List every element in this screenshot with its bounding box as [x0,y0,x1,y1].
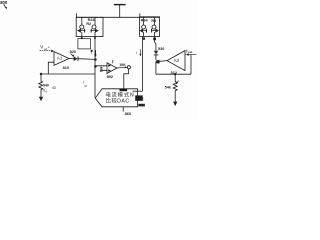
svg-text:851: 851 [99,67,103,73]
right mirror transistor QC [139,17,147,36]
svg-text:530: 530 [158,47,164,51]
resistor Rsk [165,74,177,102]
stub pad left box a [81,37,83,39]
junction dot Rsf node [40,73,42,75]
left current-mirror box [76,17,103,36]
svg-text:I: I [91,52,92,56]
svg-text:540: 540 [43,84,49,88]
wire: right bottom rail [156,73,191,75]
junction dot comparator tap [94,65,97,68]
wire: A1 inverting input [48,62,54,74]
node dot at box corner [91,50,93,52]
stub pad right box a [142,37,145,39]
svg-text:ref: ref [44,47,47,51]
left mirror transistor QA [77,17,85,36]
current label I2 [136,49,142,56]
Vref input label [40,45,50,51]
Iout label [186,48,192,54]
svg-text:820: 820 [70,49,77,54]
DAC block pentagon [95,89,137,107]
svg-text:rsf: rsf [84,84,87,88]
svg-text:+: + [48,45,50,49]
enable label 使能 [135,95,142,100]
wire: output down to block [124,69,129,89]
stub pad left box b [94,37,96,39]
diode on A1 output [74,56,78,61]
svg-text:I: I [136,51,137,55]
svg-text:电流模式N: 电流模式N [106,90,135,98]
current arrow at Rsk [176,81,179,85]
svg-text:I: I [83,80,84,84]
right current-mirror box [140,17,160,37]
stub pad right box b [153,38,156,41]
top supply rail [76,16,159,18]
wire: A3 feedback [190,55,192,74]
wire: left long vertical I1 [94,37,96,98]
svg-text:40: 40 [52,86,56,90]
VCC rail T symbol [114,5,126,18]
comparator U2 [107,60,117,73]
latch pad bottom right [138,104,145,107]
svg-text:R3: R3 [151,19,156,23]
op-amp A3 [167,51,185,71]
comparator input wires [95,66,107,71]
svg-text:A3: A3 [174,58,180,63]
tick above rail left box [76,13,78,17]
svg-text:860: 860 [125,111,132,116]
pass-device box below left mirror [78,39,91,49]
junction dot A1 output [94,58,97,61]
diode D3 [154,37,158,61]
current label I1 [91,50,97,57]
svg-text:R34: R34 [141,18,149,22]
wire: A1 output to node [69,58,95,61]
svg-text:R2: R2 [86,22,91,26]
junction dot Rsk node [174,73,176,75]
op-amp A1 [54,52,69,66]
wire: right long vertical I2 [142,37,144,92]
svg-text:852: 852 [107,74,114,79]
input pad on block top [120,89,128,91]
resistor Rsf [39,74,56,98]
svg-text:810: 810 [63,66,69,70]
svg-text:比较DAC: 比较DAC [106,96,130,104]
left mirror transistor QB [91,17,99,36]
svg-text:A1: A1 [57,55,63,60]
terminal arrow bottom left [39,97,43,102]
page mark 800 [0,0,8,9]
svg-text:使能: 使能 [135,96,144,101]
svg-text:54k: 54k [165,85,172,89]
tick above rail right box [139,13,141,17]
comparator output arrow [117,66,127,68]
svg-text:sf: sf [45,90,47,93]
wire: A3 output [156,61,167,75]
wire: left bottom feedback rail [41,73,95,75]
right mirror transistor QD [151,17,159,36]
Iout arrow wire [185,53,197,55]
block bottom stub [122,107,124,112]
wire: connector into block [133,90,143,92]
pad node A3 output [156,60,159,63]
terminal arrow bottom right [173,102,177,107]
gate arrow of 820 device [71,54,75,57]
output terminal circle [127,66,130,69]
Vref input arrow wire [40,50,55,53]
